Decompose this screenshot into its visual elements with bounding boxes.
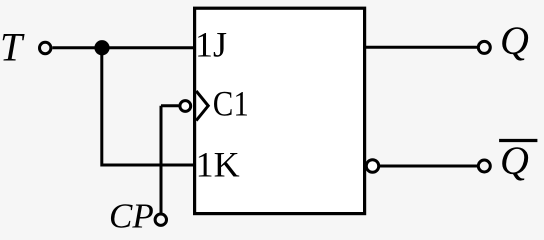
svg-text:CP: CP — [109, 197, 154, 235]
flip-flop U1 body (JK flip-flop rectangle) — [195, 8, 365, 213]
svg-text:C1: C1 — [213, 84, 249, 124]
clock wedge (dynamic input triangle) C1 — [196, 91, 208, 121]
svg-text:Q: Q — [500, 138, 529, 183]
wire T terminal to 1J input — [52, 46, 194, 49]
svg-text:T: T — [0, 25, 25, 70]
terminal CP — [155, 214, 166, 225]
svg-text:1J: 1J — [195, 25, 227, 65]
output label Q-bar overline — [499, 139, 537, 142]
inversion bubble on Q-bar output — [366, 160, 379, 173]
terminal Q — [478, 41, 490, 53]
svg-text:Q: Q — [500, 18, 529, 63]
wire Q output — [366, 46, 479, 49]
wire junction down and right to 1K input — [100, 48, 194, 165]
wire Q-bar output — [379, 165, 479, 168]
svg-text:1K: 1K — [196, 145, 240, 185]
wire CP terminal up to C1 bubble — [161, 106, 179, 213]
junction dot (node T) — [94, 40, 109, 55]
inversion bubble on C1 input — [180, 101, 191, 112]
terminal Q-bar — [478, 160, 490, 172]
terminal T — [40, 42, 51, 53]
